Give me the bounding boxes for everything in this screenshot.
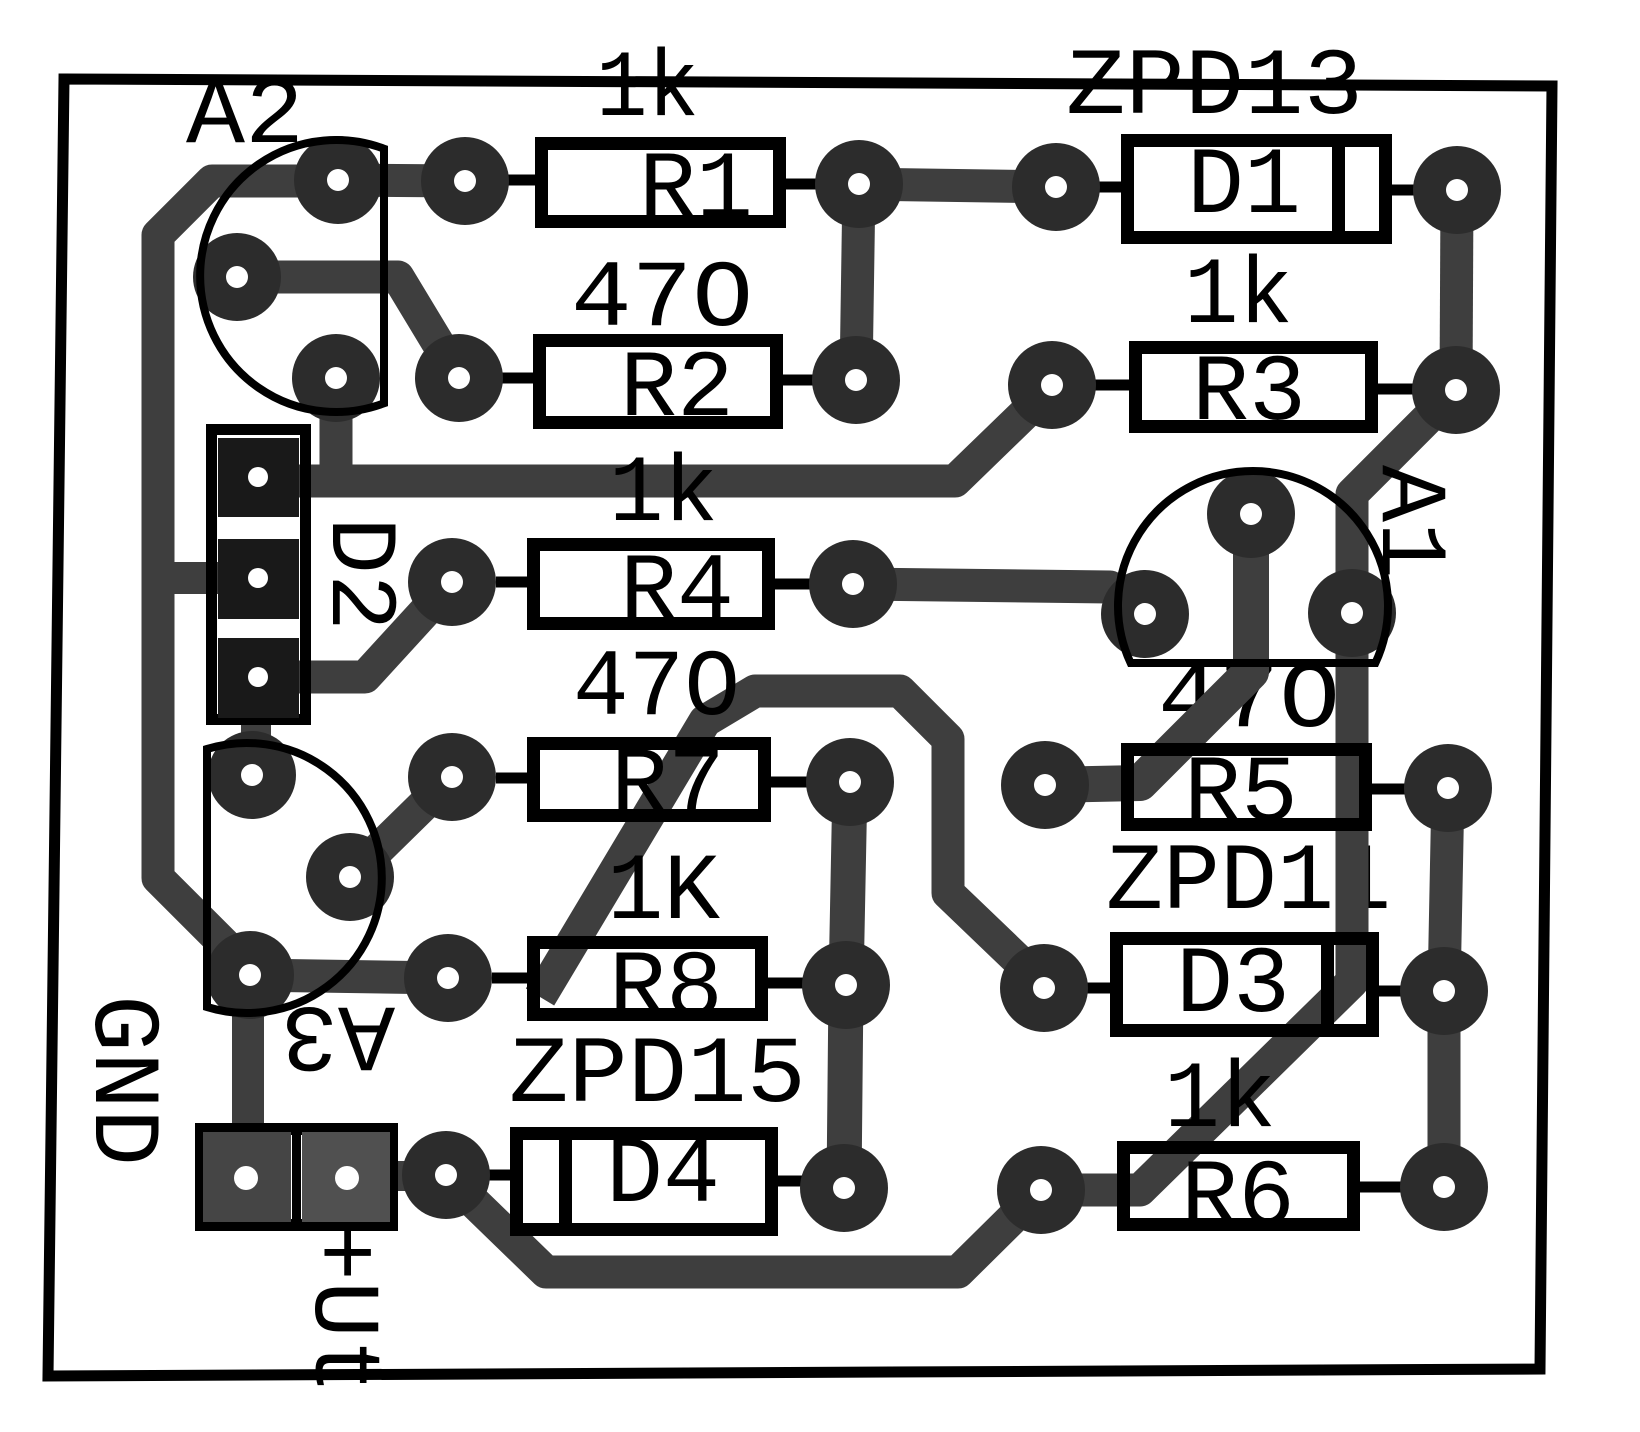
wire X1 pin3 to A3 pad1	[241, 715, 271, 772]
resistor R3 body	[1136, 348, 1372, 427]
R1 left lead	[507, 175, 535, 186]
R7 left lead	[496, 773, 527, 784]
svg-text:D2: D2	[304, 517, 412, 631]
svg-text:1k: 1k	[609, 441, 718, 549]
svg-text:GND: GND	[67, 995, 175, 1166]
wire D4 pad to R6 pad bottom run	[446, 1175, 1041, 1272]
connector X1 holes	[248, 467, 268, 487]
svg-text:47O: 47O	[573, 635, 740, 743]
connector X1 body	[212, 430, 306, 720]
R8 border redraw	[534, 943, 762, 1015]
R3 left pad	[1008, 341, 1096, 429]
A2 pad2	[193, 233, 281, 321]
node A3	[281, 979, 395, 1087]
D4 left lead	[488, 1170, 510, 1181]
wire D1 pad to R3 pad	[1456, 190, 1457, 390]
wire A2 pad2 to R2 pad	[237, 277, 459, 378]
connector X2 body	[201, 1129, 392, 1225]
wire X1 pin3 to R4 pad	[299, 582, 452, 677]
R2 right pad	[812, 336, 900, 424]
svg-text:ZPD13: ZPD13	[1066, 34, 1363, 142]
R1 right lead	[786, 179, 830, 190]
R6 border redraw	[1124, 1148, 1354, 1225]
R4 right lead	[775, 579, 815, 590]
wire R7 pad to R8 pad to D4 pad	[844, 782, 850, 1188]
R6 left lead	[1082, 1184, 1117, 1195]
wire A2 pad1 to left rail	[158, 181, 338, 970]
svg-text:R4: R4	[620, 539, 734, 647]
wire R4 pad to A1 pad2	[853, 584, 1145, 614]
diode D3 cathode band	[1321, 941, 1334, 1028]
pad holes	[327, 169, 349, 191]
svg-text:A1: A1	[1354, 465, 1462, 579]
R5 left pad	[1001, 741, 1089, 829]
connector X1 pin2	[218, 539, 299, 619]
svg-text:1k: 1k	[1164, 1047, 1276, 1155]
diode D1 body	[1128, 141, 1386, 238]
svg-text:1K: 1K	[607, 839, 720, 947]
D3 left lead	[1086, 983, 1110, 994]
svg-text:R6: R6	[1181, 1145, 1295, 1253]
svg-text:1k: 1k	[1184, 243, 1293, 351]
svg-text:+Ut: +Ut	[287, 1224, 395, 1395]
R5 right lead	[1372, 784, 1410, 795]
transistor A2 outline	[200, 140, 384, 412]
R7 right lead	[771, 777, 812, 788]
R8 left lead	[492, 973, 527, 984]
svg-text:1k: 1k	[596, 36, 699, 144]
resistor R2 body	[540, 341, 777, 423]
R4 left pad	[408, 538, 496, 626]
A1 pad1	[1207, 470, 1295, 558]
wire R3 pad via A1 pad3 to R6 pad	[1041, 390, 1456, 1190]
D3 cathode band redraw	[1321, 941, 1334, 1028]
wire R5 pad to D3 pad to R6 pad	[1444, 788, 1448, 1187]
diode D4 cathode band	[559, 1136, 572, 1223]
R2 left pad	[415, 334, 503, 422]
D3 left pad	[1000, 944, 1088, 1032]
R6 left pad	[997, 1146, 1085, 1234]
svg-text:A2: A2	[186, 63, 304, 171]
resistor R7 body	[534, 744, 765, 816]
resistor R6 body	[1124, 1148, 1354, 1225]
connector X2 pin2	[302, 1132, 390, 1222]
wire A3 pad3 to R8 pad	[250, 975, 448, 978]
connector X1 pin1	[218, 438, 299, 517]
R3 right pad	[1412, 346, 1500, 434]
svg-text:R5: R5	[1184, 741, 1298, 849]
svg-text:D1: D1	[1187, 133, 1301, 241]
R4 left lead	[496, 577, 527, 588]
D1 left pad	[1012, 143, 1100, 231]
R5 right pad	[1404, 744, 1492, 832]
R8 left pad	[404, 934, 492, 1022]
wire R8 pad to D3 pad	[540, 691, 1044, 997]
wire rail stub to connector X1 pin2	[158, 562, 226, 594]
R6 right pad	[1400, 1143, 1488, 1231]
R4 right pad	[809, 540, 897, 628]
D4 border redraw	[517, 1134, 772, 1230]
R7 right pad	[806, 738, 894, 826]
A2 pad3	[292, 334, 380, 422]
D3 right lead	[1379, 986, 1406, 997]
A3 pad2	[306, 833, 394, 921]
D3 right pad	[1400, 947, 1488, 1035]
R3 right lead	[1378, 384, 1420, 395]
transistor A3 outline	[207, 743, 382, 1013]
R7 border redraw	[534, 744, 765, 816]
A3 pad3	[206, 931, 294, 1019]
R7 left pad	[408, 733, 496, 821]
svg-text:D3: D3	[1176, 932, 1290, 1040]
resistor R5 body	[1128, 750, 1366, 825]
R1 left pad	[421, 137, 509, 225]
diode D3 body	[1117, 939, 1373, 1031]
R2 right lead	[783, 375, 820, 386]
D3 border redraw	[1117, 939, 1373, 1031]
D4 right lead	[778, 1176, 806, 1187]
svg-text:R3: R3	[1192, 340, 1306, 448]
R5 left lead	[1086, 781, 1121, 792]
resistor R4 body	[534, 545, 769, 624]
wire R1 pad to D1 pad	[859, 184, 1056, 187]
wire R2 pad to R1 pad	[856, 184, 859, 380]
diode D4 body	[517, 1134, 772, 1230]
R3 left lead	[1090, 380, 1129, 391]
resistor R1 body	[542, 144, 780, 222]
R1 right pad	[815, 140, 903, 228]
D4 left pad	[402, 1131, 490, 1219]
wire A3 pad3 to X2 pin1	[232, 975, 264, 1125]
R8 right lead	[768, 978, 808, 989]
connector X2 pin1	[203, 1132, 291, 1222]
A1 pad3	[1308, 569, 1396, 657]
svg-text:R8: R8	[609, 936, 723, 1044]
A1 pad2	[1101, 570, 1189, 658]
R5 border redraw	[1128, 750, 1366, 825]
svg-text:A3: A3	[281, 979, 395, 1087]
D1 left lead	[1098, 182, 1121, 193]
A3 pad1	[208, 731, 296, 819]
A2 pad1	[294, 136, 382, 224]
svg-text:R7: R7	[611, 733, 725, 841]
connector X2 frame	[201, 1129, 392, 1225]
wire A1 pad1 to R5 pad	[1045, 514, 1251, 785]
wire A2 pad3 down to 1k bus	[320, 378, 353, 478]
D1 right pad	[1413, 146, 1501, 234]
R8 right pad	[802, 941, 890, 1029]
D1 right lead	[1392, 185, 1418, 196]
R2 left lead	[502, 373, 533, 384]
R6 right lead	[1360, 1182, 1406, 1193]
connector X2 holes	[234, 1166, 258, 1190]
D4 right pad	[800, 1144, 888, 1232]
wire 1k bus X1 pin1 to R3 pad	[296, 387, 1052, 481]
transistor A1 outline	[1118, 471, 1388, 663]
connector X1 frame	[212, 430, 306, 720]
svg-text:R1: R1	[639, 137, 753, 245]
wire X2 pin2 to D4 pad	[347, 1161, 446, 1191]
svg-text:R2: R2	[620, 336, 734, 444]
connector X1 pin3	[218, 638, 299, 718]
wire A3 pad2 to R7 pad	[350, 777, 452, 877]
diode D1 cathode band	[1332, 143, 1345, 231]
resistor R8 body	[534, 943, 762, 1015]
svg-text:D4: D4	[606, 1122, 720, 1230]
wire A2 pad1 to R1 pad	[338, 180, 465, 181]
